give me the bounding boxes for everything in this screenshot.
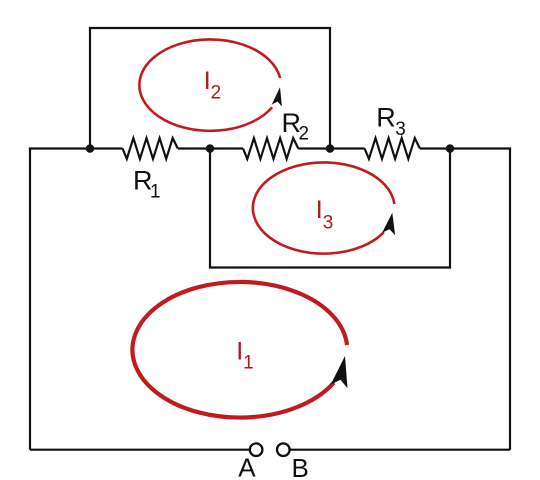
resistor R2	[243, 138, 298, 159]
arrow of loop I2	[272, 87, 282, 106]
arrow of loop I1	[331, 356, 348, 388]
terminal A circle	[250, 443, 263, 456]
node: junction dot at x=450	[446, 144, 455, 153]
terminal B circle	[277, 443, 290, 456]
mesh current loop I1	[132, 282, 347, 418]
wire: mesh-3 rectangle (left, bottom, right)	[210, 149, 450, 268]
wire: outer loop bottom-right segment from terminal B	[290, 449, 510, 451]
wire: bus segment right of R3 to outer right	[420, 147, 511, 149]
svg-text:A: A	[238, 453, 256, 480]
node: junction dot at x=90	[86, 144, 95, 153]
wire: outer loop left vertical	[29, 149, 31, 450]
mesh current loop I3	[253, 162, 395, 253]
wire: outer loop right vertical	[509, 149, 511, 450]
wire: bus segment between R1 and R2	[178, 147, 243, 149]
mesh current loop I2	[139, 39, 280, 130]
wire: main horizontal bus y=148.5 segment left	[29, 147, 123, 149]
resistor R3	[365, 138, 420, 159]
svg-text:B: B	[292, 453, 309, 480]
arrow of loop I3	[382, 213, 395, 235]
wire: top loop rectangle	[90, 28, 330, 149]
wire: bus segment between R2 and R3	[298, 147, 364, 149]
wire: outer loop bottom-left segment to terminal A	[30, 449, 250, 451]
node: junction dot at x=330	[326, 144, 335, 153]
node: junction dot at x=210	[206, 144, 215, 153]
resistor R1	[123, 138, 178, 159]
